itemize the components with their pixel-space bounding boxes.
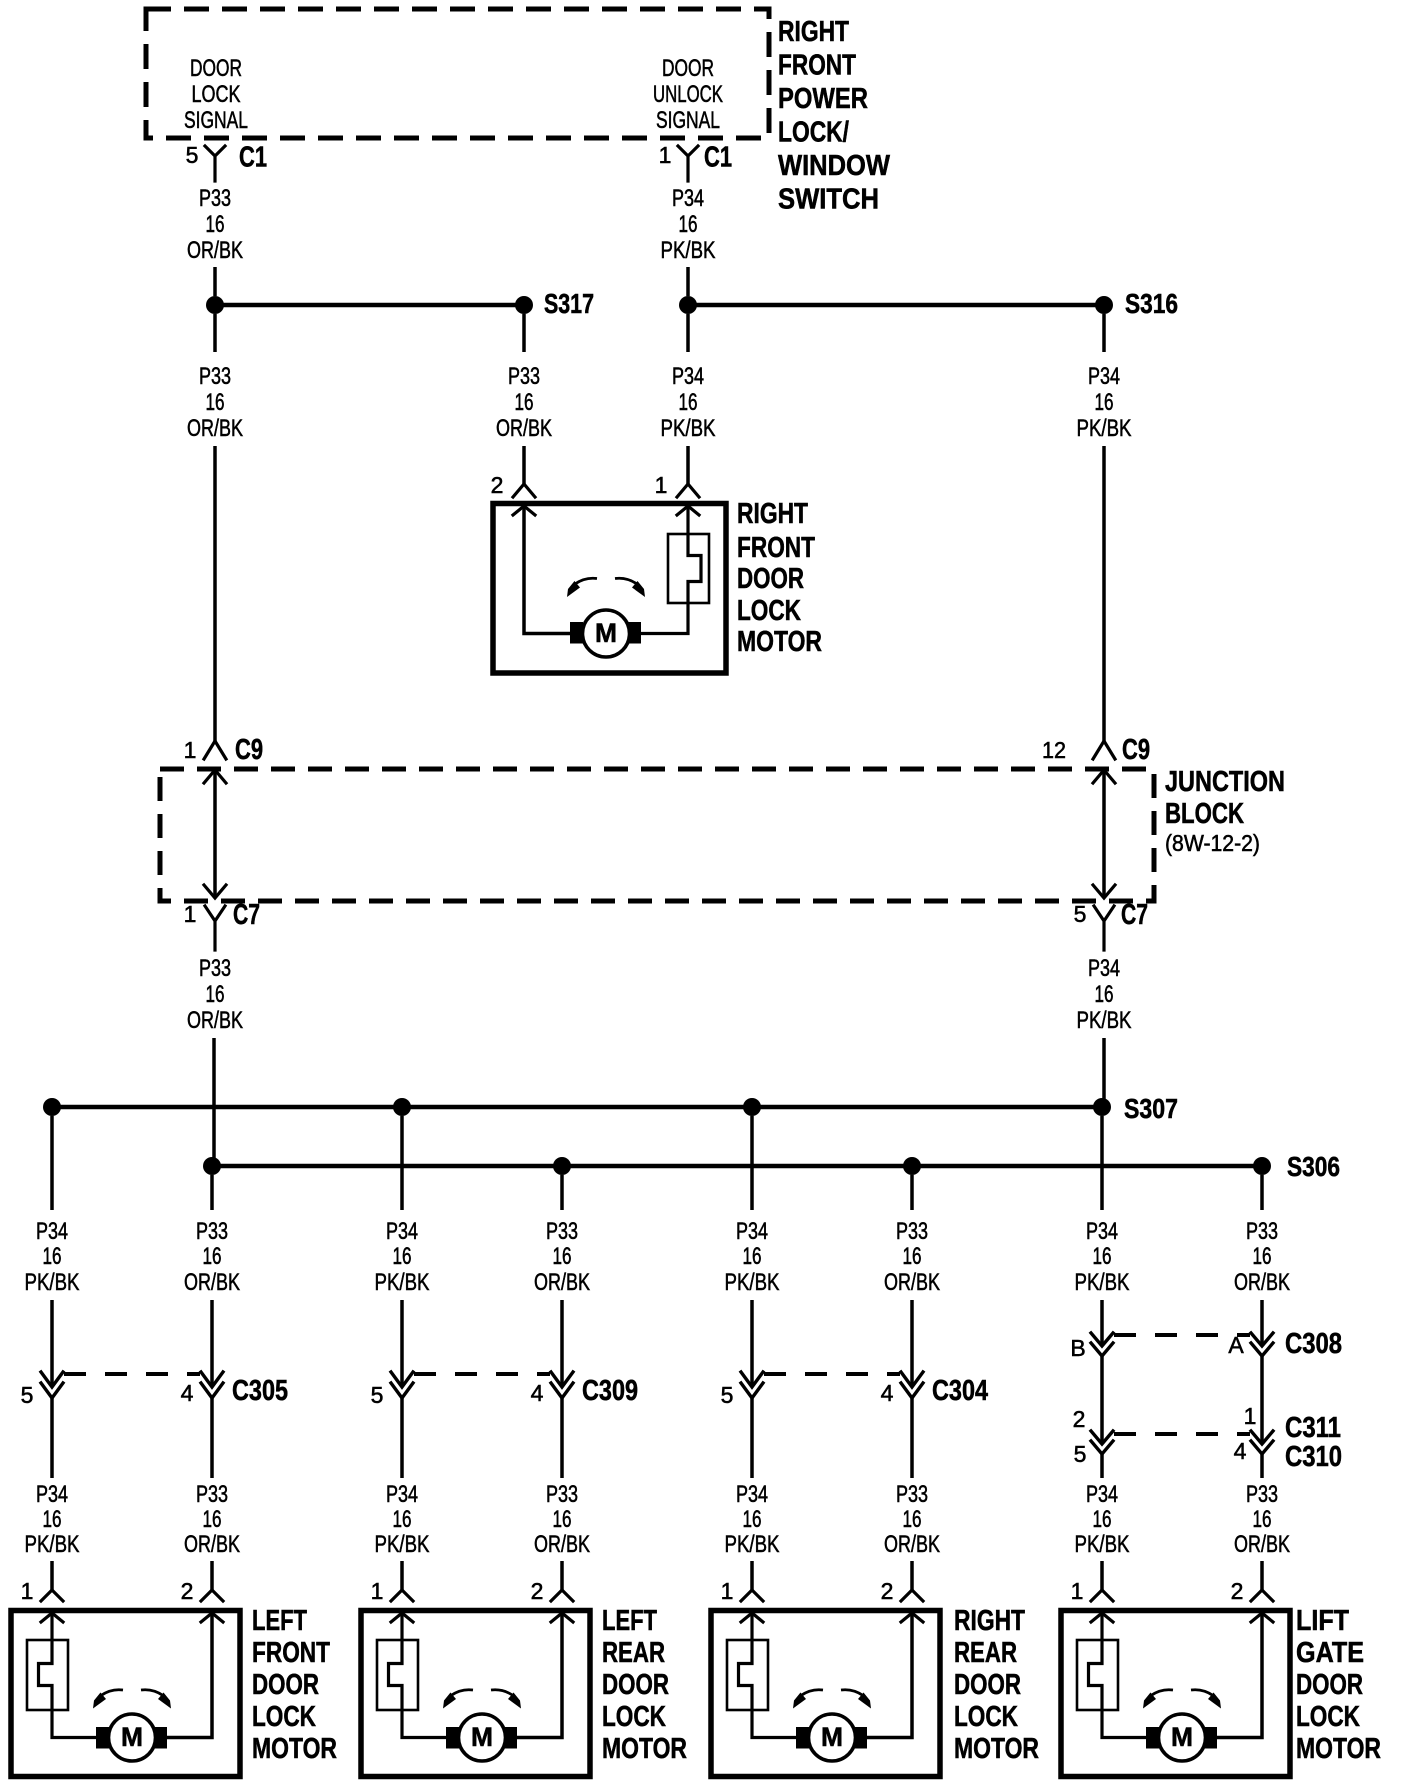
svg-text:2: 2: [531, 1578, 544, 1604]
connector C308: [1070, 1328, 1342, 1361]
svg-text:C9: C9: [1122, 734, 1150, 766]
svg-text:(8W-12-2): (8W-12-2): [1165, 830, 1260, 856]
wire: [1260, 1561, 1264, 1590]
wire: [910, 1398, 914, 1478]
wire: [522, 314, 526, 352]
svg-text:C305: C305: [232, 1375, 288, 1407]
wire to splice S306: [212, 1038, 216, 1158]
svg-text:1: 1: [184, 737, 197, 763]
svg-text:P34: P34: [36, 1218, 68, 1245]
svg-text:JUNCTION: JUNCTION: [1165, 766, 1285, 798]
svg-text:16: 16: [43, 1243, 62, 1270]
wire: [210, 1300, 214, 1386]
svg-text:1: 1: [21, 1578, 34, 1604]
svg-text:PK/BK: PK/BK: [1077, 415, 1132, 442]
wire: [522, 446, 526, 484]
wire label P34 16 PK/BK: [25, 1481, 80, 1558]
svg-text:S317: S317: [544, 288, 594, 319]
svg-text:16: 16: [43, 1506, 62, 1533]
svg-text:OR/BK: OR/BK: [187, 237, 243, 264]
svg-text:PK/BK: PK/BK: [661, 237, 716, 264]
svg-text:DOOR: DOOR: [252, 1669, 319, 1701]
svg-text:P33: P33: [196, 1481, 228, 1508]
svg-text:1: 1: [184, 901, 197, 927]
lock actuator contact: [377, 1613, 447, 1738]
left rear door lock motor box: [361, 1611, 590, 1777]
left front door lock motor box: [11, 1611, 240, 1777]
connector C1 pin 1: [659, 142, 732, 182]
wire: [167, 1613, 212, 1738]
lock actuator contact: [641, 506, 709, 634]
svg-text:16: 16: [393, 1506, 412, 1533]
motor pin 2: [1231, 1578, 1273, 1604]
svg-text:4: 4: [531, 1380, 544, 1406]
wire: [210, 1398, 214, 1478]
splice S306: [203, 1151, 1340, 1182]
svg-text:16: 16: [903, 1506, 922, 1533]
wire label P34 16 PK/BK: [1077, 955, 1132, 1034]
wire: [1260, 1175, 1264, 1210]
svg-text:PK/BK: PK/BK: [375, 1269, 430, 1296]
svg-text:SWITCH: SWITCH: [778, 184, 879, 216]
svg-text:4: 4: [181, 1380, 194, 1406]
wire: [50, 1398, 54, 1478]
wire label P33 16 OR/BK: [187, 363, 243, 442]
svg-text:P34: P34: [1086, 1218, 1118, 1245]
svg-text:C310: C310: [1285, 1441, 1342, 1473]
svg-text:16: 16: [1253, 1243, 1272, 1270]
svg-text:UNLOCK: UNLOCK: [653, 81, 723, 108]
svg-text:16: 16: [679, 389, 698, 416]
svg-text:PK/BK: PK/BK: [1075, 1531, 1130, 1558]
svg-text:16: 16: [1095, 981, 1114, 1008]
label JUNCTION BLOCK (8W-12-2): [1165, 766, 1285, 856]
svg-text:PK/BK: PK/BK: [661, 415, 716, 442]
svg-text:OR/BK: OR/BK: [496, 415, 552, 442]
connectors C311 C310: [1073, 1403, 1342, 1473]
wire to junction block C9 pin 12: [1102, 446, 1106, 741]
wire label P34 16 PK/BK: [1075, 1481, 1130, 1558]
wire: [524, 506, 571, 634]
wire label P33 16 OR/BK: [187, 955, 243, 1034]
svg-text:S316: S316: [1125, 288, 1178, 319]
motor brushes: [1146, 1727, 1217, 1749]
wire: [750, 1116, 754, 1210]
wire: [210, 1561, 214, 1590]
svg-text:LOCK: LOCK: [1296, 1701, 1360, 1733]
svg-text:OR/BK: OR/BK: [187, 1007, 243, 1034]
svg-text:RIGHT: RIGHT: [954, 1605, 1025, 1637]
connector C7 pin 5: [1074, 899, 1148, 950]
label RIGHT REAR DOOR LOCK MOTOR: [954, 1605, 1039, 1765]
junction block internal path left: [204, 770, 226, 898]
svg-text:2: 2: [491, 472, 504, 498]
svg-text:P33: P33: [199, 955, 231, 982]
wire: [400, 1116, 404, 1210]
wire: [1100, 1116, 1104, 1210]
svg-text:OR/BK: OR/BK: [884, 1531, 940, 1558]
svg-text:PK/BK: PK/BK: [25, 1269, 80, 1296]
wire: [750, 1398, 754, 1478]
motor brushes: [570, 622, 641, 644]
svg-text:16: 16: [206, 211, 225, 238]
svg-text:PK/BK: PK/BK: [1075, 1269, 1130, 1296]
svg-text:PK/BK: PK/BK: [1077, 1007, 1132, 1034]
svg-text:16: 16: [515, 389, 534, 416]
svg-text:C1: C1: [704, 142, 732, 174]
svg-text:LOCK: LOCK: [954, 1701, 1018, 1733]
lock actuator contact: [727, 1613, 797, 1738]
wire: [1217, 1613, 1262, 1738]
svg-text:M: M: [821, 1722, 843, 1752]
wire label P34 16 PK/BK: [725, 1218, 780, 1296]
svg-text:5: 5: [21, 1382, 34, 1408]
wire label P33 16 OR/BK: [534, 1218, 590, 1296]
svg-text:P34: P34: [736, 1218, 768, 1245]
svg-text:DOOR: DOOR: [190, 55, 242, 82]
svg-text:S306: S306: [1287, 1151, 1340, 1182]
rotation arrows: [567, 578, 645, 597]
svg-text:16: 16: [206, 389, 225, 416]
connector C1 pin 5: [186, 142, 267, 182]
wire: [910, 1561, 914, 1590]
svg-text:P33: P33: [196, 1218, 228, 1245]
svg-text:C1: C1: [239, 142, 267, 174]
svg-text:GATE: GATE: [1296, 1637, 1364, 1669]
wire: [1100, 1356, 1104, 1442]
svg-text:M: M: [471, 1722, 493, 1752]
svg-text:P33: P33: [199, 185, 231, 212]
svg-text:REAR: REAR: [954, 1637, 1017, 1669]
splice S317: [206, 288, 594, 319]
svg-text:P34: P34: [386, 1218, 418, 1245]
connector C305: [21, 1372, 288, 1408]
wire: [1100, 1561, 1104, 1590]
wire: [400, 1561, 404, 1590]
pin 2 entry arrow: [901, 1613, 923, 1622]
pin 1 entry arrow: [41, 1613, 63, 1622]
wire: [50, 1116, 54, 1210]
svg-text:LEFT: LEFT: [602, 1605, 657, 1637]
motor pin 2: [881, 1578, 923, 1604]
connector C309: [371, 1372, 638, 1408]
svg-text:2: 2: [881, 1578, 894, 1604]
pin 2 entry arrow: [551, 1613, 573, 1622]
svg-text:OR/BK: OR/BK: [884, 1269, 940, 1296]
wire: [50, 1561, 54, 1590]
wire label P34 16 PK/BK: [661, 363, 716, 442]
svg-text:4: 4: [1234, 1438, 1247, 1464]
label RIGHT FRONT POWER LOCK/ WINDOW SWITCH: [778, 16, 891, 216]
svg-text:C309: C309: [582, 1375, 638, 1407]
svg-text:P33: P33: [1246, 1481, 1278, 1508]
svg-text:P34: P34: [36, 1481, 68, 1508]
wire: [1260, 1300, 1264, 1344]
svg-text:16: 16: [1253, 1506, 1272, 1533]
wire label P33 16 OR/BK: [884, 1218, 940, 1296]
wire: [50, 1300, 54, 1386]
wire: [400, 1398, 404, 1478]
pin 1 entry arrow: [1091, 1613, 1113, 1622]
svg-text:16: 16: [1095, 389, 1114, 416]
svg-text:FRONT: FRONT: [778, 50, 856, 82]
svg-text:DOOR: DOOR: [662, 55, 714, 82]
svg-text:LEFT: LEFT: [252, 1605, 307, 1637]
rotation arrows: [793, 1690, 871, 1709]
junction block: [160, 769, 1154, 901]
svg-text:POWER: POWER: [778, 83, 868, 115]
svg-text:P33: P33: [546, 1218, 578, 1245]
svg-text:A: A: [1228, 1332, 1244, 1358]
wire to junction block C9 pin 1: [213, 446, 217, 741]
wire: [1100, 1454, 1104, 1478]
svg-text:SIGNAL: SIGNAL: [656, 107, 720, 134]
wire: [560, 1175, 564, 1210]
wire: [1100, 1300, 1104, 1344]
motor M: [459, 1714, 506, 1761]
svg-text:16: 16: [206, 981, 225, 1008]
wire label P34 16 PK/BK: [661, 185, 716, 264]
wire: [867, 1613, 912, 1738]
svg-text:S307: S307: [1124, 1093, 1178, 1124]
svg-text:16: 16: [203, 1243, 222, 1270]
motor pin 2: [531, 1578, 573, 1604]
wire: [910, 1175, 914, 1210]
svg-text:B: B: [1070, 1335, 1085, 1361]
svg-text:OR/BK: OR/BK: [1234, 1269, 1290, 1296]
pin 1 entry arrow: [741, 1613, 763, 1622]
svg-text:16: 16: [743, 1243, 762, 1270]
motor pin 2: [181, 1578, 223, 1604]
svg-text:2: 2: [1231, 1578, 1244, 1604]
svg-text:PK/BK: PK/BK: [725, 1269, 780, 1296]
wire: [560, 1561, 564, 1590]
svg-text:P34: P34: [1088, 955, 1120, 982]
lift gate door lock motor box: [1061, 1611, 1290, 1777]
svg-text:5: 5: [721, 1382, 734, 1408]
wire: [686, 446, 690, 484]
svg-text:PK/BK: PK/BK: [375, 1531, 430, 1558]
svg-text:M: M: [595, 618, 617, 648]
label LEFT REAR DOOR LOCK MOTOR: [602, 1605, 687, 1765]
svg-text:LOCK: LOCK: [602, 1701, 666, 1733]
svg-text:2: 2: [1073, 1406, 1086, 1432]
svg-text:1: 1: [721, 1578, 734, 1604]
svg-text:DOOR: DOOR: [1296, 1669, 1363, 1701]
wire label P34 16 PK/BK: [725, 1481, 780, 1558]
wire: [910, 1300, 914, 1386]
svg-text:OR/BK: OR/BK: [1234, 1531, 1290, 1558]
motor M: [583, 610, 630, 657]
wire: [686, 267, 690, 296]
svg-text:MOTOR: MOTOR: [602, 1733, 687, 1765]
wire: [750, 1300, 754, 1386]
wire: [400, 1300, 404, 1386]
svg-text:FRONT: FRONT: [737, 532, 815, 564]
wire label P34 16 PK/BK: [375, 1481, 430, 1558]
label LEFT FRONT DOOR LOCK MOTOR: [252, 1605, 337, 1765]
svg-text:RIGHT: RIGHT: [737, 498, 808, 530]
wire: [210, 1175, 214, 1210]
right front door lock motor box: [493, 504, 726, 674]
motor M: [1159, 1714, 1206, 1761]
wire label P33 16 OR/BK: [184, 1481, 240, 1558]
right rear door lock motor box: [711, 1611, 940, 1777]
svg-text:1: 1: [1244, 1403, 1257, 1429]
svg-text:DOOR: DOOR: [602, 1669, 669, 1701]
svg-text:M: M: [1171, 1722, 1193, 1752]
svg-text:1: 1: [659, 142, 672, 168]
wire label P33 16 OR/BK: [534, 1481, 590, 1558]
svg-text:16: 16: [679, 211, 698, 238]
svg-text:16: 16: [743, 1506, 762, 1533]
connector C9 pin 1: [184, 734, 263, 766]
svg-text:12: 12: [1042, 737, 1066, 763]
svg-text:P33: P33: [896, 1218, 928, 1245]
label DOOR LOCK SIGNAL: [184, 55, 248, 134]
rotation arrows: [443, 1690, 521, 1709]
svg-text:LIFT: LIFT: [1296, 1605, 1349, 1637]
svg-text:P34: P34: [1088, 363, 1120, 390]
splice S307: [43, 1093, 1178, 1124]
svg-text:C7: C7: [233, 899, 260, 931]
svg-text:FRONT: FRONT: [252, 1637, 330, 1669]
motor pin 1: [21, 1578, 63, 1604]
svg-text:PK/BK: PK/BK: [25, 1531, 80, 1558]
svg-text:P33: P33: [199, 363, 231, 390]
wire label P34 16 PK/BK: [1075, 1218, 1130, 1296]
motor pin 1: [371, 1578, 413, 1604]
lock actuator contact: [27, 1613, 97, 1738]
wire to splice S307: [1102, 1038, 1106, 1100]
svg-text:16: 16: [1093, 1243, 1112, 1270]
svg-text:LOCK/: LOCK/: [778, 117, 849, 149]
svg-text:16: 16: [393, 1243, 412, 1270]
svg-text:OR/BK: OR/BK: [184, 1531, 240, 1558]
wire label P34 16 PK/BK: [1077, 363, 1132, 442]
wire: [1260, 1356, 1264, 1442]
svg-text:16: 16: [553, 1506, 572, 1533]
wire: [750, 1561, 754, 1590]
pin 2 entry arrow: [513, 506, 535, 515]
svg-text:P34: P34: [672, 185, 704, 212]
svg-text:LOCK: LOCK: [252, 1701, 316, 1733]
svg-text:C311: C311: [1285, 1412, 1341, 1444]
svg-text:OR/BK: OR/BK: [187, 415, 243, 442]
wire label P33 16 OR/BK: [1234, 1481, 1290, 1558]
wire label P33 16 OR/BK: [1234, 1218, 1290, 1296]
svg-text:4: 4: [881, 1380, 894, 1406]
rotation arrows: [93, 1690, 171, 1709]
svg-text:LOCK: LOCK: [192, 81, 241, 108]
svg-text:MOTOR: MOTOR: [1296, 1733, 1381, 1765]
motor M: [809, 1714, 856, 1761]
svg-text:DOOR: DOOR: [737, 563, 804, 595]
svg-text:DOOR: DOOR: [954, 1669, 1021, 1701]
wire: [1102, 314, 1106, 352]
svg-text:MOTOR: MOTOR: [252, 1733, 337, 1765]
wire label P34 16 PK/BK: [25, 1218, 80, 1296]
svg-text:REAR: REAR: [602, 1637, 665, 1669]
svg-text:1: 1: [655, 472, 668, 498]
svg-text:P34: P34: [386, 1481, 418, 1508]
svg-text:SIGNAL: SIGNAL: [184, 107, 248, 134]
wire: [560, 1398, 564, 1478]
svg-text:1: 1: [1071, 1578, 1084, 1604]
pin 2 entry arrow: [1251, 1613, 1273, 1622]
svg-text:WINDOW: WINDOW: [778, 150, 891, 182]
svg-text:BLOCK: BLOCK: [1165, 798, 1244, 830]
svg-text:P34: P34: [1086, 1481, 1118, 1508]
svg-text:MOTOR: MOTOR: [737, 626, 822, 658]
svg-text:P34: P34: [672, 363, 704, 390]
svg-text:OR/BK: OR/BK: [184, 1269, 240, 1296]
connector C304: [721, 1372, 988, 1408]
svg-text:LOCK: LOCK: [737, 595, 801, 627]
svg-text:16: 16: [903, 1243, 922, 1270]
label DOOR UNLOCK SIGNAL: [653, 55, 723, 134]
label LIFT GATE DOOR LOCK MOTOR: [1296, 1605, 1381, 1765]
svg-text:RIGHT: RIGHT: [778, 16, 849, 48]
connector C9 pin 12: [1042, 734, 1150, 766]
svg-text:5: 5: [371, 1382, 384, 1408]
motor pin 1: [721, 1578, 763, 1604]
svg-text:5: 5: [186, 142, 199, 168]
svg-text:C304: C304: [932, 1375, 988, 1407]
wire label P33 16 OR/BK: [884, 1481, 940, 1558]
right front door lock motor pin 1: [655, 472, 699, 498]
svg-text:P33: P33: [508, 363, 540, 390]
connector C7 pin 1: [184, 899, 260, 950]
motor brushes: [796, 1727, 867, 1749]
motor brushes: [96, 1727, 167, 1749]
wire label P33 16 OR/BK: [187, 185, 243, 264]
label RIGHT FRONT DOOR LOCK MOTOR: [737, 498, 822, 658]
svg-text:C9: C9: [235, 734, 263, 766]
svg-text:C7: C7: [1121, 899, 1148, 931]
svg-text:OR/BK: OR/BK: [534, 1269, 590, 1296]
svg-text:16: 16: [203, 1506, 222, 1533]
rotation arrows: [1143, 1690, 1221, 1709]
motor brushes: [446, 1727, 517, 1749]
splice S316: [679, 288, 1178, 319]
wire label P34 16 PK/BK: [375, 1218, 430, 1296]
wire: [213, 314, 217, 352]
wire: [1260, 1454, 1264, 1478]
svg-text:MOTOR: MOTOR: [954, 1733, 1039, 1765]
wire label P33 16 OR/BK: [184, 1218, 240, 1296]
svg-text:P33: P33: [546, 1481, 578, 1508]
junction block internal path right: [1093, 770, 1115, 898]
wire label P33 16 OR/BK: [496, 363, 552, 442]
right front door lock motor pin 2: [491, 472, 535, 498]
svg-text:PK/BK: PK/BK: [725, 1531, 780, 1558]
wire: [517, 1613, 562, 1738]
svg-text:5: 5: [1074, 901, 1087, 927]
svg-text:P33: P33: [896, 1481, 928, 1508]
motor pin 1: [1071, 1578, 1113, 1604]
svg-text:5: 5: [1074, 1441, 1087, 1467]
svg-text:16: 16: [1093, 1506, 1112, 1533]
right front power lock/window switch box: [146, 9, 769, 138]
svg-text:2: 2: [181, 1578, 194, 1604]
svg-text:16: 16: [553, 1243, 572, 1270]
svg-text:M: M: [121, 1722, 143, 1752]
svg-text:P34: P34: [736, 1481, 768, 1508]
pin 1 entry arrow: [677, 506, 699, 515]
motor M: [109, 1714, 156, 1761]
svg-text:OR/BK: OR/BK: [534, 1531, 590, 1558]
